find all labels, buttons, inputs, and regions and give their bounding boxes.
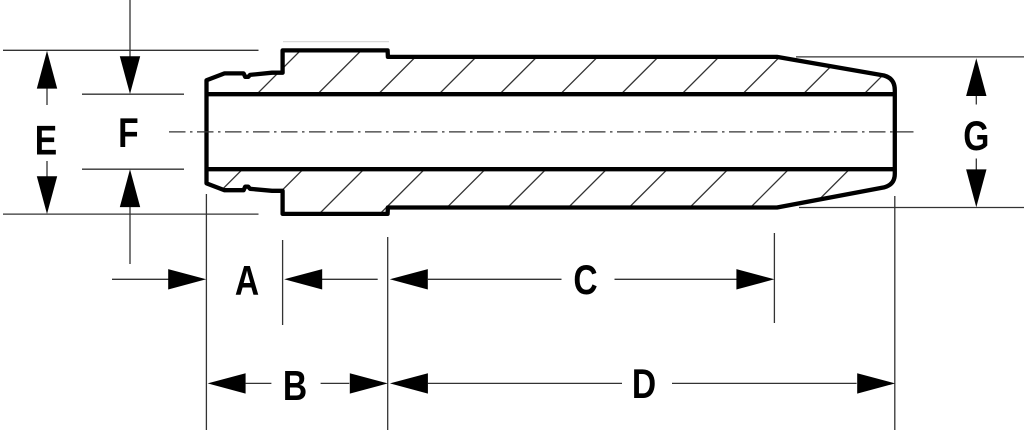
svg-text:B: B — [283, 364, 307, 410]
C right arrow — [736, 269, 774, 289]
hatch line 1 — [131, 40, 311, 220]
section hatching — [131, 40, 979, 220]
part outer profile — [207, 50, 895, 214]
G top extension line — [796, 56, 1024, 58]
F bottom arrow — [120, 169, 140, 207]
hatch line 7 — [495, 40, 675, 220]
C left arrow — [390, 269, 428, 289]
F top arrow — [120, 56, 140, 94]
hatch line 5 — [374, 40, 554, 220]
extension line x=894 — [894, 196, 896, 430]
G bottom arrow — [966, 169, 986, 207]
extension line x=206 — [205, 194, 207, 430]
F upper vertical line — [129, 0, 131, 60]
C dim line — [428, 278, 562, 280]
bore bottom line — [207, 167, 895, 171]
F lower vertical line — [129, 205, 131, 264]
hatch line 9 — [617, 40, 797, 220]
hatch line 6 — [435, 40, 615, 220]
extension line x=387 — [387, 237, 389, 430]
E bottom extension line — [3, 213, 259, 215]
E top arrow — [37, 51, 57, 89]
svg-text:G: G — [963, 114, 989, 160]
E dim vertical segments — [46, 88, 48, 105]
F top extension line — [82, 93, 184, 95]
hatch line 8 — [556, 40, 736, 220]
A dim line left — [112, 278, 169, 280]
F bottom extension line — [82, 168, 184, 170]
centerline — [169, 131, 916, 133]
hatch line 10 — [677, 40, 857, 220]
hatch line 3 — [252, 40, 432, 220]
A right arrow — [284, 269, 322, 289]
extension line x=774 — [773, 233, 775, 323]
ghost line above flange — [283, 41, 389, 43]
svg-text:C: C — [573, 258, 597, 304]
E top extension line — [3, 49, 259, 51]
hatch line 4 — [313, 40, 493, 220]
extension line x=282 — [282, 240, 284, 325]
hatch line 12 — [799, 40, 979, 220]
B right arrow — [350, 373, 388, 393]
B dim line — [246, 382, 272, 384]
A dim line right tail — [322, 278, 378, 280]
E bottom arrow — [37, 176, 57, 214]
bore top line — [207, 92, 895, 96]
G dim vertical segments — [975, 96, 977, 105]
svg-text:A: A — [235, 259, 259, 305]
svg-text:D: D — [632, 361, 656, 407]
D dim line — [428, 382, 622, 384]
D right arrow — [857, 373, 895, 393]
D left arrow — [390, 373, 428, 393]
hatch line 2 — [192, 40, 372, 220]
svg-text:F: F — [118, 110, 139, 156]
hatch line 11 — [738, 40, 918, 220]
G top arrow — [966, 58, 986, 96]
svg-text:E: E — [35, 118, 57, 164]
B left arrow — [208, 373, 246, 393]
G bottom extension line — [799, 207, 1024, 209]
A left arrow — [168, 269, 206, 289]
